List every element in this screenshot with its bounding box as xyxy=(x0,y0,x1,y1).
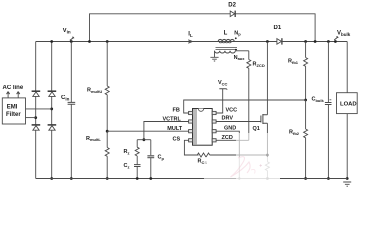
node FB tap xyxy=(304,99,307,102)
svg-text:Filter: Filter xyxy=(6,112,21,118)
wire LOAD column xyxy=(346,42,348,179)
bridge diode bottom-left xyxy=(32,125,41,130)
wire CS path xyxy=(184,140,198,155)
AC line arrows xyxy=(7,92,20,98)
pin FB xyxy=(189,111,193,114)
wire VCC drop xyxy=(216,89,223,113)
svg-text:Cp: Cp xyxy=(158,155,165,161)
svg-text:AC line: AC line xyxy=(3,85,24,91)
transformer core xyxy=(216,48,238,50)
svg-text:DRV: DRV xyxy=(222,116,234,122)
pin CS xyxy=(189,139,193,142)
resistor Rfb2 xyxy=(304,100,308,179)
svg-text:FB: FB xyxy=(173,108,180,114)
node Rfb1 top xyxy=(304,40,307,43)
wire Cp column xyxy=(150,140,152,179)
wire main input rail xyxy=(36,41,218,43)
resistor RZCD xyxy=(247,51,251,141)
diode D1 xyxy=(277,38,282,44)
phase dot aux xyxy=(235,49,237,51)
node bridge right bottom xyxy=(50,177,53,180)
wire GND drop xyxy=(216,131,239,178)
resistor RmultU xyxy=(105,42,109,132)
svg-text:VCC: VCC xyxy=(218,80,228,86)
svg-text:Cin: Cin xyxy=(61,95,70,102)
capacitor Cp xyxy=(147,156,154,158)
svg-text:Vbulk: Vbulk xyxy=(337,31,351,38)
svg-text:D2: D2 xyxy=(228,2,236,8)
watermark xyxy=(204,133,280,186)
node RmultU top xyxy=(106,40,109,43)
wire Q1 drain xyxy=(266,42,268,115)
inductor Naux winding xyxy=(215,51,236,53)
pin ZCD xyxy=(212,139,216,142)
phase dot primary xyxy=(235,37,237,39)
svg-text:LOAD: LOAD xyxy=(340,102,357,108)
wire EMI to bridge upper xyxy=(26,108,52,110)
svg-text:Rfb1: Rfb1 xyxy=(288,59,299,65)
node Cz bottom xyxy=(136,177,139,180)
node comp net xyxy=(143,138,146,141)
pin DRV xyxy=(212,120,216,123)
svg-text:Cz: Cz xyxy=(124,163,130,169)
current arrow IL xyxy=(187,40,193,43)
svg-text:Rfb2: Rfb2 xyxy=(289,130,300,136)
bridge diode bottom-right xyxy=(48,125,57,130)
bridge rectifier left leg wire xyxy=(35,42,37,179)
inductor L primary xyxy=(218,41,236,43)
node Rfb2 bottom xyxy=(304,177,307,180)
svg-text:Naux: Naux xyxy=(234,55,246,61)
transistor Q1 xyxy=(261,114,268,124)
IC U1 body xyxy=(193,109,213,146)
wire bottom rail xyxy=(36,178,348,180)
bridge rectifier right leg wire xyxy=(51,42,53,179)
svg-text:GND: GND xyxy=(224,125,236,131)
svg-text:Q1: Q1 xyxy=(253,126,260,132)
node bridge AC upper xyxy=(50,108,53,111)
probe Vbulk xyxy=(334,37,338,40)
node D2 tap xyxy=(88,40,91,43)
capacitor Cbulk xyxy=(325,103,332,105)
wire rail after inductor to D1 xyxy=(235,41,277,43)
node MULT junction xyxy=(106,130,109,133)
node Q1 drain top xyxy=(266,40,269,43)
node Cbulk top xyxy=(327,40,330,43)
wire FB feedback line xyxy=(184,100,306,113)
node Cp bottom xyxy=(149,177,152,180)
probe VCC xyxy=(219,89,227,90)
node GND bottom xyxy=(238,177,240,179)
wire D2 top line xyxy=(90,14,316,42)
bridge diode top-right xyxy=(48,91,57,96)
svg-text:L: L xyxy=(224,31,228,37)
wire output rail xyxy=(282,41,347,43)
pin VCTRL xyxy=(189,120,193,123)
pin VCC xyxy=(212,111,216,114)
svg-text:Cbulk: Cbulk xyxy=(312,97,325,103)
ground aux xyxy=(210,57,218,61)
resistor Rz xyxy=(135,140,139,165)
diode D2 xyxy=(230,11,235,17)
capacitor Cin xyxy=(68,102,76,104)
svg-text:RZCD: RZCD xyxy=(253,62,265,68)
node sense xyxy=(266,154,269,157)
resistor RmultL xyxy=(105,131,109,178)
pin MULT xyxy=(189,130,193,133)
svg-text:MULT: MULT xyxy=(167,126,183,132)
svg-text:RmultL: RmultL xyxy=(86,136,101,142)
svg-text:RmultU: RmultU xyxy=(87,88,102,94)
probe Vin xyxy=(70,37,74,40)
svg-text:IL: IL xyxy=(188,32,193,39)
node RmultL bottom xyxy=(106,177,109,180)
EMI filter box xyxy=(2,98,25,124)
node Rsense bottom xyxy=(266,177,269,180)
node LOAD bottom xyxy=(346,177,349,180)
bridge diode top-left xyxy=(32,91,41,96)
node D2 return xyxy=(314,40,317,43)
svg-text:VCC: VCC xyxy=(226,108,238,114)
wire Cin column xyxy=(70,42,72,179)
svg-text:CS: CS xyxy=(173,137,181,143)
svg-text:Rz: Rz xyxy=(124,149,130,155)
ground bottom right xyxy=(343,182,351,186)
resistor Rsense xyxy=(265,162,269,179)
svg-text:Np: Np xyxy=(234,30,241,36)
node Vin xyxy=(70,40,73,43)
node bridge AC lower xyxy=(34,116,37,119)
wire ZCD xyxy=(216,139,249,141)
wire EMI to bridge lower xyxy=(26,117,36,119)
capacitor Cz xyxy=(134,165,141,167)
resistor RCS xyxy=(197,153,266,157)
wire aux left to ground xyxy=(214,51,216,58)
node Cbulk bottom xyxy=(327,177,330,180)
wire comp bar xyxy=(137,139,151,141)
wire Cz to rail xyxy=(136,167,138,179)
wire DRV to gate xyxy=(216,121,261,123)
resistor Rfb1 xyxy=(304,42,308,101)
svg-text:Vin: Vin xyxy=(63,28,71,35)
pin GND xyxy=(212,130,216,133)
wire VCTRL xyxy=(144,122,189,140)
wire Cbulk column xyxy=(327,42,329,179)
wire MULT xyxy=(107,130,188,132)
node Cin bottom xyxy=(70,177,73,180)
svg-text:EMI: EMI xyxy=(7,105,18,111)
wire aux right xyxy=(235,50,249,52)
wire Q1 source xyxy=(266,123,268,162)
svg-text:D1: D1 xyxy=(274,25,282,31)
LOAD box xyxy=(337,93,358,114)
node bridge right top xyxy=(50,40,53,43)
